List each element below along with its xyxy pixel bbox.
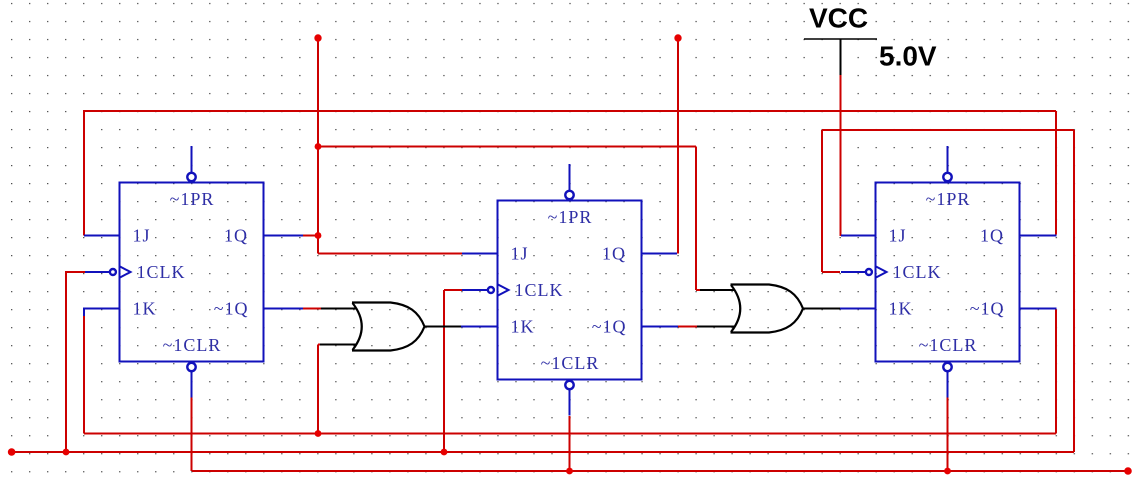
svg-text:1CLK: 1CLK xyxy=(893,262,942,282)
svg-text:~1PR: ~1PR xyxy=(170,189,215,209)
svg-text:~1CLR: ~1CLR xyxy=(163,335,222,355)
svg-text:~1CLR: ~1CLR xyxy=(541,353,600,373)
svg-text:~1CLR: ~1CLR xyxy=(919,335,978,355)
svg-text:1K: 1K xyxy=(511,317,535,337)
svg-text:1Q: 1Q xyxy=(980,226,1004,246)
svg-text:~1PR: ~1PR xyxy=(548,207,593,227)
svg-text:~1PR: ~1PR xyxy=(926,189,971,209)
svg-text:1K: 1K xyxy=(133,299,157,319)
svg-text:1CLK: 1CLK xyxy=(137,262,186,282)
svg-text:5.0V: 5.0V xyxy=(879,41,937,72)
svg-text:~1Q: ~1Q xyxy=(970,299,1005,319)
svg-text:1J: 1J xyxy=(133,226,151,246)
svg-text:1K: 1K xyxy=(889,299,913,319)
svg-text:~1Q: ~1Q xyxy=(214,299,249,319)
svg-text:1J: 1J xyxy=(511,244,529,264)
svg-text:1CLK: 1CLK xyxy=(515,280,564,300)
svg-text:1Q: 1Q xyxy=(602,244,626,264)
svg-text:VCC: VCC xyxy=(809,3,868,34)
svg-text:1J: 1J xyxy=(889,226,907,246)
svg-text:~1Q: ~1Q xyxy=(592,317,627,337)
svg-text:1Q: 1Q xyxy=(224,226,248,246)
